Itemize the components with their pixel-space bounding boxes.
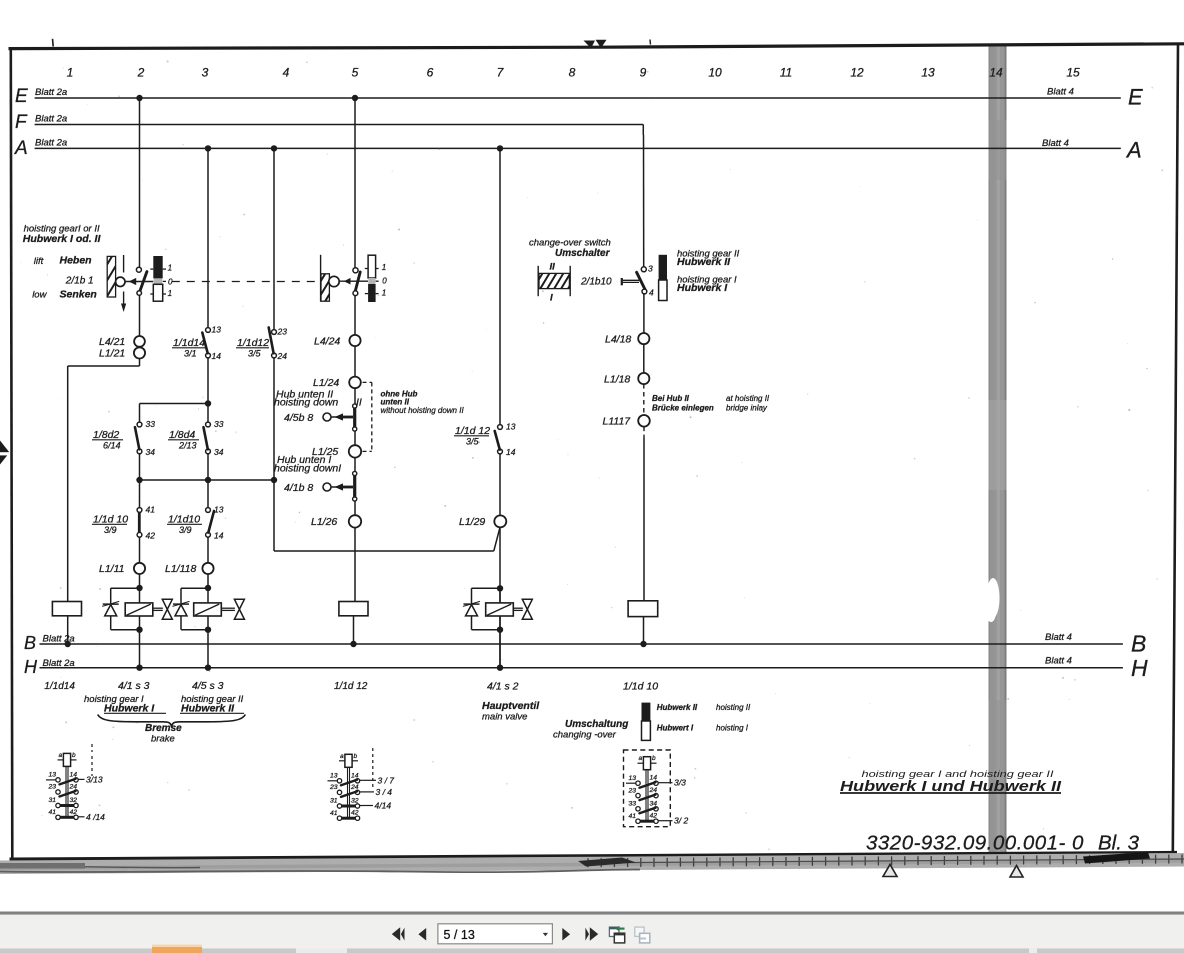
svg-text:II: II xyxy=(550,262,556,273)
svg-text:H: H xyxy=(24,657,38,677)
svg-text:hoisting downI: hoisting downI xyxy=(274,463,341,475)
svg-text:34: 34 xyxy=(146,447,156,457)
svg-text:L1/29: L1/29 xyxy=(459,516,485,528)
svg-text:14: 14 xyxy=(70,771,78,778)
svg-text:1: 1 xyxy=(382,289,386,298)
svg-text:Bei Hub II: Bei Hub II xyxy=(652,394,690,403)
svg-text:31: 31 xyxy=(49,797,57,804)
svg-text:3/9: 3/9 xyxy=(179,525,192,535)
svg-text:8: 8 xyxy=(569,66,576,80)
svg-text:13: 13 xyxy=(214,505,224,515)
svg-text:23: 23 xyxy=(277,327,288,337)
svg-text:13: 13 xyxy=(330,773,338,780)
svg-text:13: 13 xyxy=(49,772,57,779)
svg-text:23: 23 xyxy=(628,787,637,794)
svg-text:3/ 2: 3/ 2 xyxy=(674,816,688,826)
svg-text:42: 42 xyxy=(351,810,359,817)
svg-text:1/1d12: 1/1d12 xyxy=(237,337,269,349)
svg-text:L1/118: L1/118 xyxy=(165,563,196,575)
svg-text:Blatt 4: Blatt 4 xyxy=(1042,138,1069,149)
svg-text:Hubwerk I od. II: Hubwerk I od. II xyxy=(23,233,102,245)
svg-text:14: 14 xyxy=(351,772,359,779)
svg-text:Hubwert I: Hubwert I xyxy=(657,724,694,733)
svg-text:H: H xyxy=(1131,655,1148,681)
svg-text:Hauptventil: Hauptventil xyxy=(482,700,540,712)
svg-text:1/1d10: 1/1d10 xyxy=(168,514,200,526)
svg-text:b: b xyxy=(652,755,656,762)
svg-text:14: 14 xyxy=(506,447,516,457)
svg-text:11: 11 xyxy=(780,66,792,80)
svg-text:Blatt 2a: Blatt 2a xyxy=(35,87,67,98)
svg-text:brake: brake xyxy=(151,734,175,745)
svg-text:5 / 13: 5 / 13 xyxy=(444,928,475,942)
svg-text:3 / 7: 3 / 7 xyxy=(378,775,395,785)
svg-text:41: 41 xyxy=(49,809,57,816)
svg-text:hoisting II: hoisting II xyxy=(716,703,751,712)
svg-text:a: a xyxy=(639,755,643,762)
svg-text:42: 42 xyxy=(650,813,658,820)
svg-text:2/1b 1: 2/1b 1 xyxy=(65,276,94,287)
svg-text:41: 41 xyxy=(629,813,637,820)
svg-text:1/1d14: 1/1d14 xyxy=(44,681,75,692)
svg-text:L1/11: L1/11 xyxy=(99,563,125,575)
svg-text:4: 4 xyxy=(283,66,290,80)
svg-text:6: 6 xyxy=(427,66,434,80)
svg-text:lift: lift xyxy=(34,256,44,267)
svg-text:0: 0 xyxy=(382,276,387,285)
svg-text:4/1b 8: 4/1b 8 xyxy=(284,482,313,494)
svg-text:3/5: 3/5 xyxy=(466,437,480,447)
svg-text:1/1d 12: 1/1d 12 xyxy=(334,681,368,692)
svg-text:L4/21: L4/21 xyxy=(99,336,125,348)
svg-text:E: E xyxy=(1128,85,1143,110)
svg-text:a: a xyxy=(59,752,63,759)
svg-text:24: 24 xyxy=(350,784,359,791)
svg-text:9: 9 xyxy=(640,66,647,80)
svg-text:Hubwerk I: Hubwerk I xyxy=(677,282,728,294)
svg-text:41: 41 xyxy=(146,505,156,515)
svg-text:3 / 4: 3 / 4 xyxy=(376,787,393,797)
svg-text:1/1d 10: 1/1d 10 xyxy=(623,681,658,693)
svg-text:31: 31 xyxy=(330,798,338,805)
svg-text:I: I xyxy=(550,293,553,304)
svg-text:5: 5 xyxy=(352,66,359,80)
svg-text:4/5 s 3: 4/5 s 3 xyxy=(192,680,224,692)
svg-text:3320-932.09.00.001- 0: 3320-932.09.00.001- 0 xyxy=(866,832,1084,855)
svg-text:3/13: 3/13 xyxy=(86,774,103,784)
svg-text:4/14: 4/14 xyxy=(375,801,392,811)
svg-text:23: 23 xyxy=(329,784,338,791)
svg-text:1/1d14: 1/1d14 xyxy=(173,337,205,349)
svg-text:32: 32 xyxy=(70,797,78,804)
svg-text:Heben: Heben xyxy=(60,255,92,267)
svg-text:B: B xyxy=(1131,631,1146,657)
svg-text:15: 15 xyxy=(1066,66,1080,80)
svg-text:33: 33 xyxy=(214,419,224,429)
svg-text:14: 14 xyxy=(214,530,224,540)
svg-text:L4/24: L4/24 xyxy=(314,335,340,347)
svg-text:Umschaltung: Umschaltung xyxy=(565,719,628,730)
svg-text:32: 32 xyxy=(351,798,359,805)
svg-text:Blatt 4: Blatt 4 xyxy=(1045,632,1072,643)
svg-text:42: 42 xyxy=(70,809,78,816)
svg-text:II: II xyxy=(356,396,362,408)
svg-text:4/1 s 3: 4/1 s 3 xyxy=(118,680,150,692)
svg-text:1/8d2: 1/8d2 xyxy=(93,429,119,441)
svg-text:L1117: L1117 xyxy=(603,416,632,428)
svg-text:B: B xyxy=(24,633,36,653)
svg-text:Blatt 4: Blatt 4 xyxy=(1045,656,1072,667)
svg-text:a: a xyxy=(340,753,344,760)
svg-text:10: 10 xyxy=(708,66,722,80)
svg-text:Senken: Senken xyxy=(60,289,97,301)
svg-text:13: 13 xyxy=(506,422,516,432)
svg-text:Blatt 4: Blatt 4 xyxy=(1047,87,1074,98)
svg-text:1: 1 xyxy=(382,263,386,272)
svg-text:4/5b 8: 4/5b 8 xyxy=(284,412,313,424)
svg-text:2/1b10: 2/1b10 xyxy=(580,277,612,288)
svg-text:Hubwerk II: Hubwerk II xyxy=(677,256,731,268)
svg-text:24: 24 xyxy=(69,784,78,791)
svg-text:24: 24 xyxy=(649,787,658,794)
svg-text:F: F xyxy=(15,112,28,133)
svg-text:bridge inlay: bridge inlay xyxy=(726,403,768,412)
svg-text:Bl. 3: Bl. 3 xyxy=(1098,832,1140,855)
svg-text:hoisting I: hoisting I xyxy=(716,724,749,733)
svg-text:13: 13 xyxy=(212,325,222,335)
svg-text:34: 34 xyxy=(650,800,658,807)
svg-text:33: 33 xyxy=(629,801,637,808)
svg-text:41: 41 xyxy=(330,810,338,817)
svg-text:Blatt 2a: Blatt 2a xyxy=(35,138,67,149)
svg-text:33: 33 xyxy=(146,419,156,429)
svg-text:b: b xyxy=(72,752,76,759)
svg-text:4: 4 xyxy=(649,288,654,298)
svg-text:42: 42 xyxy=(146,530,156,540)
svg-text:L1/18: L1/18 xyxy=(604,373,630,385)
svg-text:1: 1 xyxy=(168,263,172,272)
svg-text:1: 1 xyxy=(168,289,172,298)
svg-text:Blatt 2a: Blatt 2a xyxy=(35,114,67,125)
svg-text:without hoisting down II: without hoisting down II xyxy=(381,406,465,415)
svg-text:L1/21: L1/21 xyxy=(99,348,125,360)
svg-text:3/5: 3/5 xyxy=(248,349,262,359)
svg-text:14: 14 xyxy=(650,775,658,782)
svg-text:Bremse: Bremse xyxy=(145,723,182,734)
svg-text:L1/26: L1/26 xyxy=(311,516,337,528)
svg-text:Brücke einlegen: Brücke einlegen xyxy=(652,403,714,412)
svg-text:3/1: 3/1 xyxy=(184,349,197,359)
svg-text:main valve: main valve xyxy=(482,712,527,723)
svg-text:3: 3 xyxy=(648,264,653,274)
svg-text:6/14: 6/14 xyxy=(103,441,121,451)
svg-text:4 /14: 4 /14 xyxy=(86,812,105,822)
svg-text:1/1d 12: 1/1d 12 xyxy=(455,425,490,437)
svg-text:Hubwerk II: Hubwerk II xyxy=(657,703,698,712)
svg-text:A: A xyxy=(14,138,28,159)
svg-text:24: 24 xyxy=(277,351,288,361)
svg-text:4/1 s 2: 4/1 s 2 xyxy=(487,681,519,693)
svg-text:1: 1 xyxy=(67,66,74,80)
svg-text:L4/18: L4/18 xyxy=(605,333,631,345)
svg-text:A: A xyxy=(1125,138,1142,163)
svg-text:14: 14 xyxy=(989,66,1003,80)
svg-text:2/13: 2/13 xyxy=(178,441,197,451)
svg-text:1/8d4: 1/8d4 xyxy=(169,429,195,441)
svg-text:changing -over: changing -over xyxy=(553,730,617,741)
svg-text:1/1d 10: 1/1d 10 xyxy=(93,514,128,526)
svg-text:2: 2 xyxy=(137,66,145,80)
svg-text:23: 23 xyxy=(48,784,57,791)
svg-text:13: 13 xyxy=(921,66,935,80)
svg-text:hoisting down: hoisting down xyxy=(274,397,338,409)
svg-text:14: 14 xyxy=(212,351,222,361)
svg-text:12: 12 xyxy=(850,66,864,80)
svg-text:at hoisting II: at hoisting II xyxy=(726,394,770,403)
svg-text:low: low xyxy=(32,290,47,301)
svg-text:34: 34 xyxy=(214,447,224,457)
svg-text:3/3: 3/3 xyxy=(674,778,686,788)
svg-text:b: b xyxy=(354,753,358,760)
svg-text:Blatt 2a: Blatt 2a xyxy=(43,658,75,669)
svg-text:3: 3 xyxy=(202,66,209,80)
svg-text:E: E xyxy=(15,86,28,107)
svg-text:3/9: 3/9 xyxy=(104,525,117,535)
svg-text:Umschalter: Umschalter xyxy=(555,248,611,259)
svg-text:13: 13 xyxy=(629,775,637,782)
